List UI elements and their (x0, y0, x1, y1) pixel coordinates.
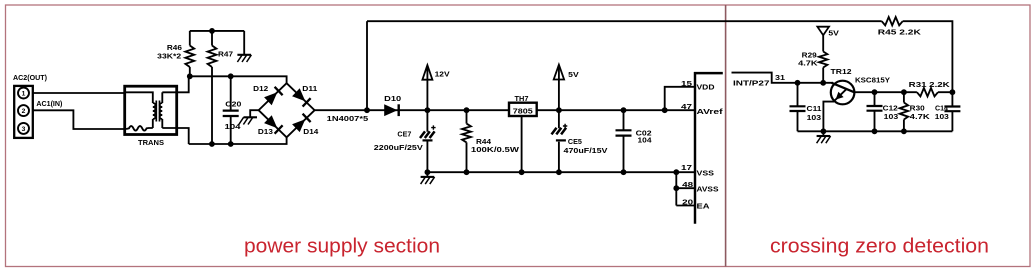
svg-text:TR12: TR12 (831, 67, 852, 76)
svg-text:C11: C11 (807, 104, 822, 113)
transformer core (156, 101, 159, 122)
transformer secondary winding (161, 92, 163, 103)
svg-text:TH7: TH7 (515, 94, 529, 103)
connector pin 3 (18, 123, 29, 134)
wire VDD pin 15 (665, 87, 695, 110)
junction gnd/branch (673, 169, 679, 175)
connector CON1 body (14, 86, 33, 138)
wire ground rail (427, 171, 694, 173)
junction INT/R29 (820, 80, 826, 86)
resistor R45 (882, 17, 903, 25)
junction rail-bottom / C20 (228, 141, 234, 147)
junction gnd/CE5 (556, 169, 562, 175)
wire secondary bottom (177, 128, 189, 144)
wire AC rail top (189, 76, 287, 83)
resistor R31 (917, 88, 938, 96)
junction rgnd/emitter (821, 128, 827, 134)
wire R46-R47 top rail (190, 30, 244, 32)
svg-text:D10: D10 (384, 94, 401, 103)
transistor TR12 (831, 81, 855, 105)
svg-text:4.7K: 4.7K (910, 112, 931, 121)
wire top rail (367, 21, 952, 92)
ground (main rail) (426, 172, 428, 177)
wire R47 bottom lead (211, 67, 213, 144)
wire main DC 2 (537, 109, 695, 111)
junction INT/C11 (795, 80, 801, 86)
wire INT/P27 (732, 73, 834, 83)
svg-text:4.7K: 4.7K (798, 59, 818, 68)
junction gnd/7805 (519, 169, 525, 175)
svg-text:CE7: CE7 (397, 129, 411, 138)
svg-text:103: 103 (935, 112, 949, 121)
junction top rail / R47 (209, 28, 215, 34)
svg-text:31: 31 (775, 73, 785, 82)
svg-text:CE5: CE5 (568, 137, 582, 146)
junction branch/AVSS (673, 185, 679, 191)
svg-text:AVref: AVref (697, 107, 724, 116)
transformer TRANS box (125, 86, 177, 134)
diode D13 (264, 115, 277, 128)
power flag 12V (426, 66, 428, 110)
resistor R47 (211, 31, 213, 46)
wire secondary top (177, 76, 189, 92)
transformer primary winding (126, 92, 153, 103)
resistor R30 (903, 92, 905, 102)
ground (right section) (822, 131, 824, 136)
svg-text:7805: 7805 (513, 109, 533, 116)
junction riser/main (364, 107, 370, 113)
resistor R46 (189, 31, 191, 46)
diode D14 (292, 119, 305, 132)
power flag 5V (558, 66, 560, 110)
svg-text:103: 103 (807, 113, 822, 122)
svg-text:D11: D11 (302, 84, 317, 93)
bridge diamond wires (259, 83, 315, 137)
regulator U TH7 7805 box (509, 103, 537, 116)
junction rgnd/C12 (872, 128, 878, 134)
svg-text:R31 2.2K: R31 2.2K (909, 80, 951, 89)
diode D12 (264, 92, 277, 105)
IC U1 edge (694, 72, 723, 224)
junction col/R31/C14 (950, 89, 956, 95)
svg-text:D12: D12 (253, 84, 268, 93)
svg-text:33K*2: 33K*2 (157, 51, 181, 60)
wire AC1 to transformer (33, 110, 125, 129)
svg-text:2200uF/25V: 2200uF/25V (374, 143, 423, 152)
svg-text:2: 2 (22, 108, 26, 115)
svg-text:5V: 5V (828, 29, 839, 38)
svg-text:KSC815Y: KSC815Y (855, 75, 890, 84)
capacitor CE5 (558, 110, 560, 172)
svg-text:TRANS: TRANS (138, 138, 164, 147)
svg-text:crossing zero detection: crossing zero detection (770, 235, 989, 258)
svg-text:1N4007*5: 1N4007*5 (327, 114, 369, 123)
svg-text:R45 2.2K: R45 2.2K (878, 28, 922, 37)
junction gnd/R44 (464, 169, 470, 175)
svg-text:VDD: VDD (697, 82, 715, 91)
power flag 5V (down) (817, 27, 829, 36)
junction col/C12 (872, 89, 878, 95)
junction main/C02 (621, 107, 627, 113)
transformer thermal fuse (126, 126, 153, 131)
diode D11 (292, 88, 305, 101)
wire 12V riser (366, 21, 368, 110)
wire R46 bottom lead (189, 67, 191, 76)
svg-text:AC1(IN): AC1(IN) (36, 99, 63, 108)
capacitor C11 (797, 83, 799, 132)
ground (top, near R47) (243, 31, 245, 55)
wire TR12 collector (854, 91, 953, 93)
svg-text:100K/0.5W: 100K/0.5W (471, 145, 519, 154)
capacitor C20 (230, 76, 232, 144)
svg-text:17: 17 (681, 164, 692, 172)
diode D10 (384, 104, 397, 116)
capacitor C02 (623, 110, 625, 172)
wire AC2 to transformer (33, 92, 125, 94)
connector pin 1 (18, 88, 29, 99)
svg-text:12V: 12V (435, 70, 450, 79)
wire AC rail bottom (189, 137, 287, 144)
junction main/R44 (464, 107, 470, 113)
wire 7805 gnd (521, 116, 523, 172)
wire main DC (315, 109, 509, 111)
svg-text:48: 48 (682, 181, 693, 189)
svg-text:INT/P27: INT/P27 (733, 79, 770, 88)
junction main/CE5 (556, 107, 562, 113)
junction rail-bottom / R47 (209, 141, 215, 147)
svg-text:D14: D14 (303, 127, 319, 136)
svg-text:3: 3 (22, 126, 26, 133)
junction main/pin15 (662, 107, 668, 113)
svg-text:5V: 5V (568, 70, 579, 79)
resistor R44 (466, 110, 468, 123)
junction rail-top / R46 (187, 73, 193, 79)
wire AVSS EA branch (676, 172, 694, 205)
section divider (725, 5, 727, 267)
junction rail-top / C20 (228, 73, 234, 79)
svg-text:AC2(OUT): AC2(OUT) (13, 73, 48, 82)
wire right ground rail (798, 130, 953, 132)
junction gnd/C02 (621, 169, 627, 175)
svg-text:470uF/15V: 470uF/15V (564, 146, 608, 155)
capacitor C14 (951, 92, 953, 131)
svg-text:C20: C20 (225, 99, 241, 108)
svg-text:15: 15 (681, 80, 692, 88)
svg-text:103: 103 (884, 112, 899, 121)
connector pin 2 (18, 105, 29, 116)
ground (bridge minus) (250, 110, 258, 117)
svg-text:R47: R47 (218, 49, 233, 58)
junction main/CE7 (425, 107, 431, 113)
resistor R29 (819, 52, 827, 68)
junction rgnd/R30 (901, 128, 907, 134)
svg-text:47: 47 (681, 103, 692, 111)
svg-text:EA: EA (697, 202, 711, 211)
svg-text:D13: D13 (258, 127, 273, 136)
junction gnd/CE7 (425, 169, 431, 175)
svg-text:20: 20 (682, 199, 693, 207)
svg-text:power supply section: power supply section (244, 235, 440, 258)
capacitor CE7 (426, 110, 428, 172)
svg-text:104: 104 (638, 136, 653, 145)
svg-text:AVSS: AVSS (697, 184, 719, 193)
svg-text:VSS: VSS (697, 169, 715, 178)
capacitor C12 (874, 92, 876, 131)
junction col/R30 (901, 89, 907, 95)
svg-text:1: 1 (22, 91, 26, 98)
